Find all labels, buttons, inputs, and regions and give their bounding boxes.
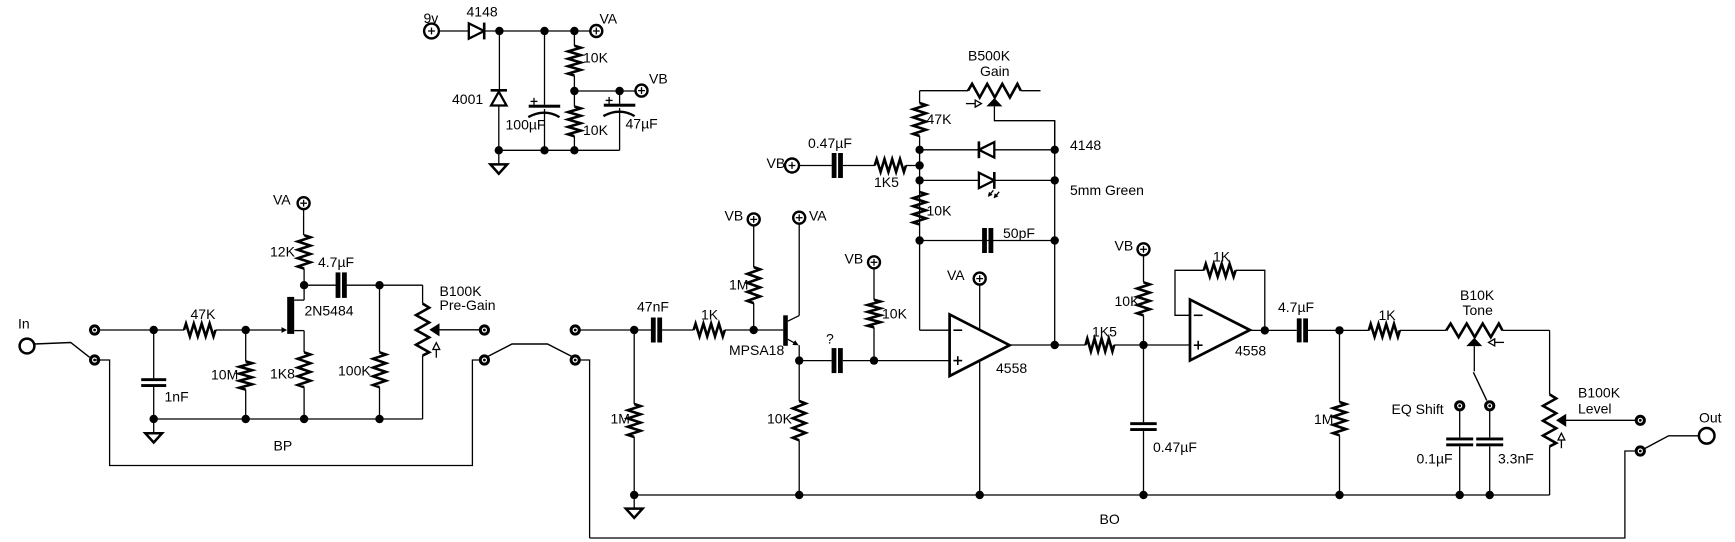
resistor 1M (bias) (729, 225, 760, 330)
capacitor 47uF (603, 91, 657, 150)
terminal VB (10K ref) (845, 251, 881, 269)
svg-text:10K: 10K (882, 306, 908, 322)
terminal VA (590, 11, 617, 38)
wire (498, 31, 500, 90)
svg-text:4148: 4148 (1070, 137, 1101, 153)
node (915, 236, 923, 244)
capacitor 4.7uF (output) (1278, 299, 1314, 342)
op-amp U2 4558 (1190, 300, 1266, 361)
wire (1400, 329, 1446, 331)
resistor 1K (tone) (1369, 307, 1400, 337)
node (630, 326, 638, 334)
diode 4001 (452, 90, 507, 107)
capacitor 0.47uF (shunt) (1130, 345, 1197, 495)
label BP (274, 438, 293, 454)
svg-text:VA: VA (273, 192, 291, 208)
wire (216, 329, 282, 331)
svg-text:100µF: 100µF (506, 117, 546, 133)
contact (input upper) (91, 326, 99, 334)
node (976, 491, 984, 499)
ground (stage2) (626, 495, 643, 518)
resistor 47K (feedback) (913, 91, 952, 150)
svg-text:10M: 10M (211, 367, 238, 383)
svg-text:1M: 1M (1314, 411, 1333, 427)
diode 4148 (clip) (979, 137, 1101, 158)
node (150, 326, 158, 334)
switch lever (input) (35, 343, 90, 358)
capacitor 1nF (141, 330, 188, 419)
potentiometer B10K Tone (1446, 287, 1549, 346)
wire (99, 329, 184, 331)
node (1261, 326, 1269, 334)
svg-text:VA: VA (600, 11, 618, 27)
svg-text:1K: 1K (701, 307, 719, 323)
svg-text:B100K: B100K (1578, 385, 1621, 401)
wire BP bypass (95, 360, 481, 466)
svg-text:4.7µF: 4.7µF (1278, 299, 1314, 315)
svg-text:9v: 9v (424, 10, 439, 26)
node (540, 146, 548, 154)
svg-text:Pre-Gain: Pre-Gain (440, 297, 496, 313)
svg-text:10K: 10K (1115, 293, 1141, 309)
wire ground rail (stage1) (154, 418, 423, 420)
wire feedback right rail (1054, 121, 1056, 345)
wire (347, 284, 423, 286)
node (1051, 341, 1059, 349)
svg-text:5mm Green: 5mm Green (1070, 182, 1144, 198)
resistor 1K8 (270, 352, 311, 419)
svg-text:VB: VB (845, 251, 864, 267)
switch lever (middle) (488, 344, 571, 356)
svg-text:In: In (18, 316, 30, 332)
terminal VB (bias) (725, 208, 760, 226)
node (540, 27, 548, 35)
node (495, 27, 503, 35)
terminal 9v (424, 10, 439, 39)
node (375, 281, 383, 289)
svg-text:1K5: 1K5 (874, 174, 899, 190)
node (795, 491, 803, 499)
resistor 1M (to ground) (611, 330, 641, 495)
contact (mid upper-left) (480, 326, 488, 334)
switch lever (output) (1645, 436, 1699, 449)
wire diode row2 (920, 179, 1055, 181)
node (1051, 176, 1059, 184)
terminal VA (12K) (273, 192, 310, 210)
wire diode row1 (920, 149, 1055, 151)
svg-text:47nF: 47nF (637, 299, 669, 315)
svg-text:47K: 47K (191, 306, 217, 322)
node (630, 491, 638, 499)
potentiometer B100K Level (1543, 330, 1636, 495)
node (570, 27, 578, 35)
resistor 47K (184, 306, 216, 336)
svg-text:1K: 1K (1379, 307, 1397, 323)
capacitor 3.3nF (1476, 410, 1534, 495)
capacitor 4.7uF (stage1) (318, 254, 354, 298)
capacitor 100uF (506, 31, 561, 150)
contact (input lower) (91, 356, 99, 364)
svg-text:1M: 1M (729, 277, 748, 293)
wire op-amp1 power (979, 285, 981, 495)
svg-text:EQ Shift: EQ Shift (1392, 401, 1444, 417)
svg-text:1K8: 1K8 (270, 366, 295, 382)
wire (574, 90, 635, 92)
op-amp U1 4558 (950, 314, 1028, 376)
node (150, 415, 158, 423)
terminal VB (0.47uF) (767, 155, 800, 172)
node (242, 415, 250, 423)
terminal VB (636, 71, 668, 97)
wire feedback left rail (919, 150, 921, 330)
node (795, 356, 803, 364)
label BO (1100, 511, 1120, 527)
node (570, 146, 578, 154)
resistor 12K (270, 209, 311, 285)
resistor 1K (feedback op2) (1204, 249, 1236, 277)
resistor 10K (emitter) (767, 361, 806, 495)
wire (843, 360, 950, 362)
resistor 10K (ref2) (1115, 255, 1150, 345)
node (750, 326, 758, 334)
transistor MPSA18 (729, 224, 799, 361)
svg-text:1K5: 1K5 (1092, 324, 1117, 340)
wire (799, 360, 831, 362)
contact (out upper) (1636, 416, 1644, 424)
resistor 1K5 (VB) (874, 159, 906, 190)
jack In (18, 316, 34, 354)
terminal VB (op-amp2 ref) (1115, 238, 1150, 256)
svg-text:VB: VB (1115, 238, 1134, 254)
svg-text:4148: 4148 (467, 3, 498, 19)
contact (EQ left) (1456, 402, 1464, 410)
wire VA rail (485, 30, 591, 32)
svg-text:10K: 10K (927, 203, 953, 219)
wire (799, 165, 832, 167)
resistor 100K (338, 285, 386, 419)
svg-text:BP: BP (274, 438, 293, 454)
node (1139, 341, 1147, 349)
svg-text:1K: 1K (1213, 249, 1231, 265)
contact (out lower) (1636, 447, 1644, 455)
svg-text:47µF: 47µF (626, 116, 658, 132)
svg-text:Tone: Tone (1463, 302, 1494, 318)
node (1139, 491, 1147, 499)
capacitor 0.47uF (VB) (808, 135, 852, 178)
terminal VA (op-amp1) (947, 267, 986, 284)
svg-text:0.47µF: 0.47µF (1153, 439, 1197, 455)
svg-text:Out: Out (1699, 410, 1722, 426)
node (300, 415, 308, 423)
node (242, 326, 250, 334)
node (915, 161, 923, 169)
LED 5mm Green (979, 172, 1144, 198)
node (1335, 326, 1343, 334)
ground (490, 150, 507, 173)
capacitor ? (826, 331, 843, 373)
wire (1236, 270, 1265, 330)
svg-text:1M: 1M (611, 411, 630, 427)
node (915, 176, 923, 184)
label EQ Shift (1392, 401, 1444, 417)
contact (mid lower-left) (480, 356, 488, 364)
resistor 10K (ref) (868, 268, 908, 360)
wire tone wiper (1473, 346, 1475, 371)
svg-text:VA: VA (809, 208, 827, 224)
node (495, 146, 503, 154)
node (1051, 146, 1059, 154)
jack Out (1699, 410, 1722, 444)
wire feedback (op-amp2) (1175, 270, 1204, 315)
svg-text:3.3nF: 3.3nF (1498, 451, 1534, 467)
svg-text:1nF: 1nF (165, 389, 189, 405)
svg-text:0.1µF: 0.1µF (1417, 451, 1453, 467)
node (615, 87, 623, 95)
diode 4148 (power) (467, 3, 498, 39)
node (300, 281, 308, 289)
resistor 1K (base) (694, 307, 725, 337)
svg-text:MPSA18: MPSA18 (729, 342, 784, 358)
svg-text:B500K: B500K (968, 48, 1011, 64)
svg-text:50pF: 50pF (1003, 225, 1035, 241)
svg-text:10K: 10K (583, 122, 609, 138)
node (375, 415, 383, 423)
svg-text:Gain: Gain (980, 63, 1010, 79)
svg-text:VB: VB (649, 71, 668, 87)
svg-text:4558: 4558 (1235, 343, 1266, 359)
svg-text:100K: 100K (338, 363, 371, 379)
contact (mid upper-right) (571, 326, 579, 334)
wire (579, 329, 651, 331)
svg-text:VA: VA (947, 267, 965, 283)
node (915, 146, 923, 154)
contact (mid lower-right) (571, 356, 579, 364)
terminal VA (collector) (793, 208, 827, 224)
wire cap row (920, 240, 1055, 242)
svg-text:0.47µF: 0.47µF (808, 135, 852, 151)
contact (EQ right) (1486, 402, 1494, 410)
switch lever (EQ Shift) (1473, 372, 1486, 400)
svg-text:?: ? (826, 331, 834, 347)
svg-text:47K: 47K (927, 111, 953, 127)
svg-text:VB: VB (725, 208, 744, 224)
svg-text:B10K: B10K (1460, 287, 1495, 303)
svg-text:12K: 12K (270, 244, 296, 260)
svg-text:10K: 10K (767, 411, 793, 427)
potentiometer B100K Pre-Gain (416, 283, 496, 419)
wire (1114, 344, 1190, 346)
node VB divider (570, 87, 578, 95)
wire ground rail (499, 149, 620, 151)
svg-text:10K: 10K (583, 50, 609, 66)
node (1456, 491, 1464, 499)
ground (stage1) (145, 419, 162, 443)
wire ground rail (stage2) (634, 494, 1549, 496)
resistor 1M (output) (1314, 330, 1346, 495)
node (870, 356, 878, 364)
resistor 10K (feedback) (913, 192, 952, 225)
wire output (1010, 344, 1086, 346)
svg-text:Level: Level (1578, 401, 1611, 417)
potentiometer B500K Gain (920, 48, 1055, 150)
node (1335, 491, 1343, 499)
wire (843, 165, 875, 167)
wire (304, 284, 336, 286)
wire (498, 106, 500, 151)
resistor 1K5 (output) (1086, 324, 1118, 352)
wire (920, 329, 950, 331)
wire (1308, 329, 1369, 331)
capacitor 50pF (982, 225, 1035, 253)
resistor 10K (upper divider) (568, 31, 609, 91)
resistor 10M (211, 330, 252, 419)
svg-text:4558: 4558 (996, 360, 1027, 376)
wire BO line (590, 451, 1637, 538)
wire output2 (1250, 329, 1297, 331)
resistor 10K (lower divider) (568, 91, 609, 150)
svg-text:4001: 4001 (452, 91, 483, 107)
wire BO drop (579, 360, 589, 538)
wire (906, 165, 920, 167)
svg-text:4.7µF: 4.7µF (318, 254, 354, 270)
node (1486, 491, 1494, 499)
capacitor 0.1uF (1417, 410, 1474, 495)
wire (439, 30, 469, 32)
wire (725, 329, 783, 331)
node (1051, 236, 1059, 244)
capacitor 47nF (637, 299, 669, 343)
svg-text:VB: VB (767, 155, 786, 171)
transistor 2N5484 (282, 285, 354, 352)
wire (662, 329, 694, 331)
svg-text:2N5484: 2N5484 (305, 303, 354, 319)
svg-text:BO: BO (1100, 511, 1120, 527)
